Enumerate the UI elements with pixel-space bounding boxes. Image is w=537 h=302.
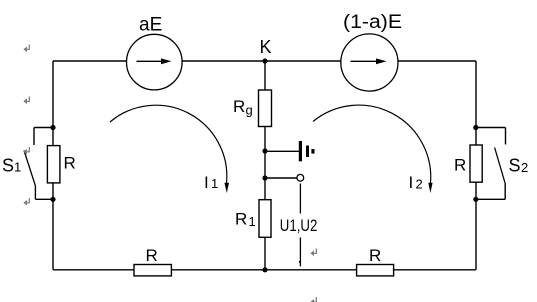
pilcrow return mark 3 [23,147,29,155]
resistor R bottom-left [134,246,171,276]
svg-text:R: R [233,97,245,116]
node right top [473,125,478,130]
svg-text:K: K [260,37,272,57]
svg-text:S: S [2,156,14,176]
resistor R left [47,146,75,183]
resistor R bottom-right [357,246,394,276]
svg-text:1: 1 [249,214,256,229]
node right bottom [473,197,478,202]
node left bottom [50,197,55,202]
svg-text:2: 2 [416,177,423,192]
svg-text:R: R [64,154,76,173]
wire right [475,61,477,270]
probe terminal open circle [297,174,304,181]
resistor R1 [235,200,271,238]
voltage arrow U1,U2 [280,184,318,267]
svg-text:1: 1 [211,176,218,191]
wire middle branch [264,61,266,270]
node junction ground [262,148,267,153]
svg-text:U1,U2: U1,U2 [280,216,318,235]
svg-text:I: I [204,173,209,192]
svg-text:1: 1 [14,160,21,175]
switch S1 [2,128,53,200]
node bottom middle [262,267,267,272]
resistor R right [454,145,482,182]
switch S2 [476,128,528,200]
svg-text:aE: aE [139,15,162,36]
svg-text:2: 2 [521,160,528,175]
pilcrow return mark 6 [310,297,316,302]
pilcrow return mark 5 [310,249,316,257]
svg-text:R: R [454,156,466,175]
svg-text:S: S [509,156,521,176]
ground [299,141,315,161]
wire bottom [53,269,476,271]
wire left [52,61,54,270]
svg-text:R: R [235,210,247,229]
wire to ground [265,150,299,152]
svg-text:g: g [246,103,253,118]
wire to probe terminal [265,177,297,179]
loop current I2 arc [313,105,433,193]
svg-text:(1-a)E: (1-a)E [343,12,402,33]
pilcrow return mark 2 [23,97,29,105]
wire top [53,60,476,62]
loop current I1 arc [110,105,229,193]
svg-text:R: R [146,246,158,265]
source aE [127,15,183,90]
resistor Rg [233,90,272,127]
node K [262,58,267,63]
svg-text:R: R [369,246,381,265]
source (1-a)E [341,12,402,91]
pilcrow return mark 1 [23,45,29,53]
node left top [50,125,55,130]
pilcrow return mark 4 [23,198,29,206]
node junction probe [262,175,267,180]
svg-text:I: I [409,173,414,192]
